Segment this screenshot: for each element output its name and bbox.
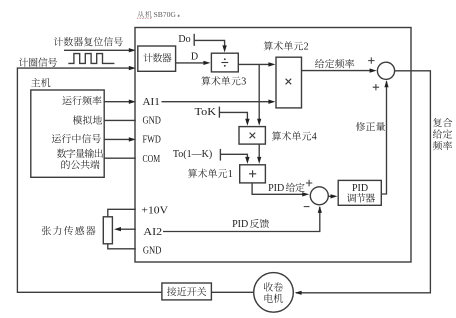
wire divider output to multiplier (238, 62, 275, 66)
label 复合 (433, 118, 452, 127)
label 算术单元3 (201, 76, 240, 85)
wire Do line (194, 40, 227, 52)
tick Do (193, 34, 195, 46)
plus sign adder (249, 170, 256, 177)
label 数字量输出 (57, 149, 103, 158)
wire pot wiper to AI2 (114, 227, 136, 231)
wire PID feedback wire (163, 206, 322, 232)
label 频率 (433, 141, 452, 150)
label 的公共端 (61, 160, 99, 169)
wire 算术单元4 output (257, 144, 261, 164)
potentiometer 张力传感器 (103, 217, 112, 244)
multiply sign (286, 79, 292, 85)
wire summing 2 to PID controller (328, 194, 337, 198)
wire 公共端 to COM (104, 157, 136, 159)
spellcheck underline (137, 17, 153, 19)
wire 运行频率 to AI1 (104, 100, 136, 104)
PID controller box (338, 180, 381, 205)
wire pot bottom to GND (108, 244, 136, 249)
tick ToK (218, 107, 220, 118)
wire counter reset signal line (64, 48, 136, 52)
wire ToK line (219, 112, 249, 125)
svg-text:Do: Do (178, 34, 190, 45)
svg-text:To(1—K): To(1—K) (173, 149, 212, 160)
slave inverter box (从机) (135, 28, 411, 263)
label 计数器 (144, 53, 172, 62)
label 主机 (31, 78, 50, 87)
divide sign (221, 58, 228, 67)
label 运行中信号 (52, 134, 101, 143)
svg-text:PID: PID (352, 183, 368, 194)
label 电机 (265, 294, 283, 303)
svg-text:4: 4 (312, 131, 317, 142)
wire composite frequency output to motor (295, 71, 431, 295)
svg-text:ToK: ToK (195, 107, 217, 118)
svg-text:GND: GND (143, 246, 162, 257)
wire PID setpoint wire (252, 183, 309, 197)
label 模拟地 (73, 115, 102, 124)
wire multiplier output to summing point (302, 68, 377, 72)
label 算术单元4 (272, 131, 311, 140)
wire branch to 算术单元4 (257, 64, 261, 125)
svg-text:PID: PID (232, 219, 248, 230)
pulse waveform symbol (68, 54, 114, 64)
label 收卷 (264, 282, 283, 291)
wire 运行中信号 to FWD (104, 137, 136, 141)
wire proximity switch to counter signal line (17, 66, 162, 292)
wire D line counter to divider (176, 61, 211, 65)
label 算术单元2 (264, 41, 303, 50)
svg-text:+10V: +10V (141, 206, 168, 217)
plus sign 1b (373, 84, 379, 90)
wire 模拟地 to GND (104, 119, 136, 121)
multiplier box 算术单元4 (239, 127, 265, 145)
plus sign 1a (368, 57, 374, 63)
svg-text:AI2: AI2 (143, 227, 162, 238)
label 给定频率 (315, 59, 354, 68)
host box (主机) (31, 90, 104, 177)
svg-text:SB70G: SB70G (154, 10, 177, 19)
svg-text:GND: GND (143, 116, 162, 127)
wire pot top to +10V (108, 209, 136, 217)
winding motor circle 收卷电机 (254, 273, 294, 313)
label 反馈(PID) (250, 219, 269, 228)
counter box 计数器 (138, 46, 176, 71)
wire AI1 to multiplier (162, 100, 276, 104)
label 运行频率 (62, 96, 101, 105)
tick To(1-K) (219, 149, 221, 161)
svg-text:AI1: AI1 (143, 97, 160, 108)
label 算术单元1 (188, 169, 227, 178)
label 给定 (433, 129, 452, 138)
label 计数器复位信号 (54, 37, 123, 46)
label 给定(PID) (286, 183, 305, 192)
svg-text:FWD: FWD (143, 135, 162, 146)
plus sign 2 (306, 180, 312, 186)
label 接近开关 (167, 287, 206, 296)
minus sign 2 (304, 206, 310, 208)
wire switch to motor wire (211, 291, 253, 293)
summing junction 2 (310, 187, 328, 205)
svg-text:1: 1 (228, 169, 233, 180)
proximity switch box 接近开关 (162, 283, 212, 300)
svg-text:D: D (191, 52, 198, 63)
svg-text:3: 3 (241, 76, 246, 87)
label 张力传感器 (42, 226, 96, 235)
svg-text:PID: PID (268, 183, 284, 194)
multiply sign 4 (250, 133, 256, 139)
multiplier box 算术单元2 (276, 57, 302, 108)
label 计圈信号 (19, 58, 57, 67)
adder box 算术单元1 (240, 165, 266, 183)
label 调节器 (347, 193, 375, 202)
label title 从机 SB70G (137, 11, 152, 18)
label 修正量 (356, 122, 385, 131)
wire To(1-K) line (220, 154, 249, 164)
paragraph mark (178, 15, 180, 17)
svg-text:COM: COM (143, 154, 161, 165)
summing junction 1 (377, 62, 394, 79)
divider box 算术单元3 (211, 53, 238, 72)
svg-text:2: 2 (304, 41, 309, 52)
wire correction (修正量) wire (381, 80, 388, 194)
